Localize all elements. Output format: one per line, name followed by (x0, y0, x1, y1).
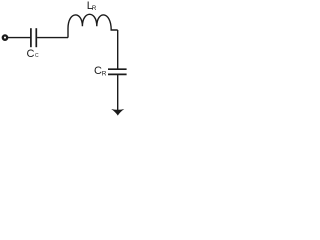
input terminal (3, 35, 7, 39)
wire input to C_C (8, 37, 31, 39)
capacitor C_R bottom plate (108, 73, 127, 75)
inductor L_R (68, 14, 118, 37)
capacitor C_R top plate (108, 68, 127, 70)
svg-text:R: R (92, 5, 97, 12)
svg-text:C: C (27, 48, 35, 60)
capacitor C_C left plate (30, 28, 32, 47)
wire C_C to L_R (37, 37, 68, 39)
svg-text:C: C (35, 53, 39, 59)
capacitor C_C right plate (35, 28, 37, 47)
wire C_R to ground (117, 74, 119, 110)
svg-text:R: R (102, 71, 107, 78)
wire L_R to C_R (117, 30, 119, 69)
svg-text:C: C (94, 65, 102, 77)
ground (111, 109, 124, 116)
